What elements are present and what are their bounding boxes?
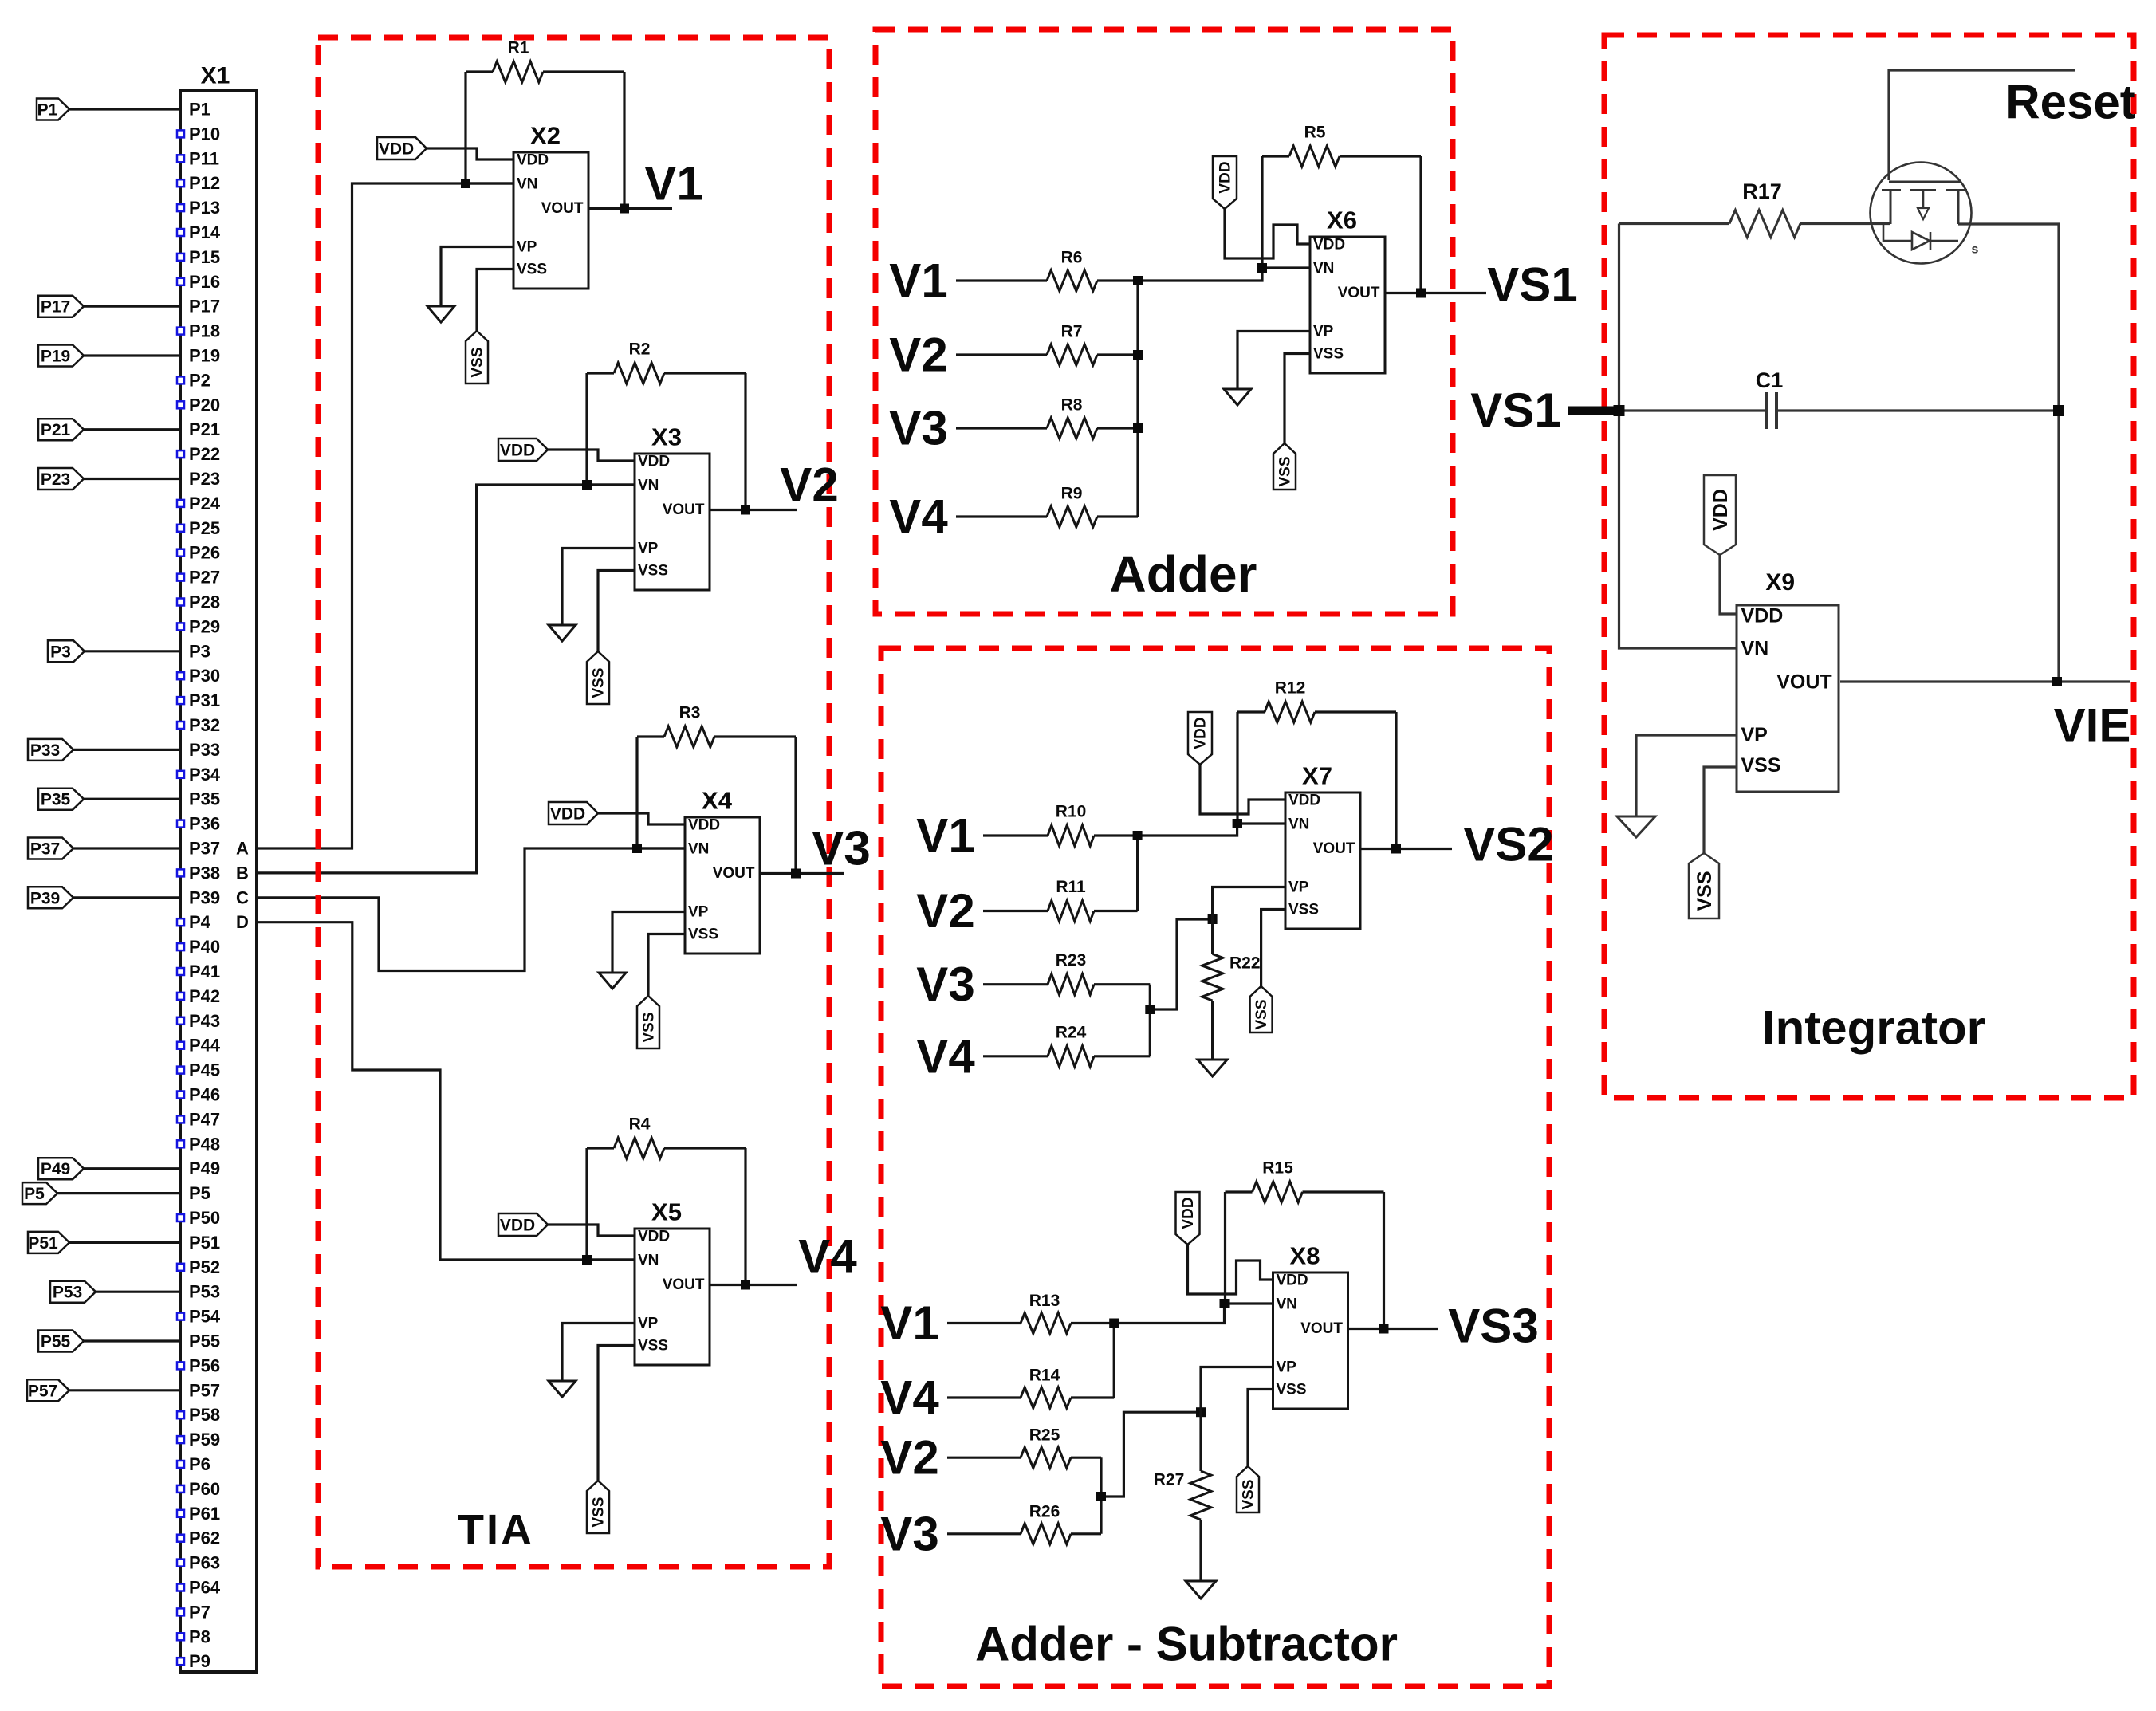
svg-text:P10: P10 (189, 124, 220, 144)
svg-text:R15: R15 (1262, 1159, 1293, 1178)
resistor R23 (983, 983, 1048, 985)
svg-text:P8: P8 (189, 1626, 210, 1646)
svg-text:R11: R11 (1056, 878, 1086, 896)
svg-text:VDD: VDD (688, 817, 720, 834)
wire flag P23 to X1 (84, 478, 180, 480)
svg-text:V1: V1 (889, 254, 947, 308)
svg-text:P44: P44 (189, 1036, 221, 1056)
wire flag P55 to X1 (84, 1339, 180, 1342)
svg-text:P40: P40 (189, 937, 220, 957)
wire VSS of X8 to VSS flag (1248, 1390, 1273, 1467)
wire flag P1 to X1 (69, 108, 180, 110)
wire flag P37 to X1 (73, 847, 180, 849)
wire R2 right to VOUT (744, 373, 746, 510)
svg-text:VSS: VSS (688, 926, 718, 943)
svg-text:V4: V4 (916, 1029, 975, 1083)
svg-text:V1: V1 (644, 157, 702, 210)
svg-text:R10: R10 (1056, 803, 1087, 821)
svg-text:V2: V2 (889, 328, 947, 382)
wire VP of X3 to ground (562, 549, 635, 626)
svg-text:VN: VN (517, 176, 537, 193)
svg-text:Adder - Subtractor: Adder - Subtractor (975, 1618, 1398, 1671)
svg-text:R9: R9 (1061, 485, 1083, 503)
svg-text:V3: V3 (889, 402, 947, 455)
svg-text:VDD: VDD (1218, 161, 1234, 193)
svg-text:VOUT: VOUT (1300, 1320, 1343, 1337)
svg-text:P61: P61 (189, 1504, 220, 1524)
wire VOUT of X4 (760, 872, 845, 875)
wire Q1 source to right rail (1958, 224, 2059, 682)
svg-text:P56: P56 (189, 1355, 220, 1375)
svg-text:P33: P33 (189, 740, 220, 760)
junction VIE (2052, 677, 2062, 686)
svg-text:P30: P30 (189, 666, 220, 686)
svg-text:VP: VP (1288, 879, 1309, 896)
wire VOUT of X9 (VIE net) (1840, 680, 2130, 682)
svg-text:X7: X7 (1302, 762, 1332, 790)
svg-text:V4: V4 (880, 1371, 939, 1425)
wire R3 left to VN (637, 737, 685, 848)
resistor R6 (956, 279, 1047, 281)
svg-text:P58: P58 (189, 1405, 220, 1425)
op-amp X9 (1737, 605, 1839, 792)
svg-text:P27: P27 (189, 568, 220, 588)
svg-text:V1: V1 (916, 809, 974, 863)
svg-text:VP: VP (1277, 1359, 1297, 1376)
svg-text:R26: R26 (1029, 1502, 1060, 1520)
op-amp X5 (635, 1229, 710, 1365)
svg-text:VSS: VSS (591, 1497, 608, 1527)
svg-text:R24: R24 (1056, 1023, 1087, 1041)
svg-text:X5: X5 (651, 1198, 682, 1226)
wire net D (P4 to X5 VN) (257, 922, 635, 1260)
wire VDD flag to X9 (1720, 555, 1737, 614)
svg-text:VP: VP (688, 904, 709, 921)
ground symbol for X5 (549, 1381, 576, 1397)
svg-text:VN: VN (1288, 816, 1309, 833)
junction at X8 VOUT (1379, 1324, 1389, 1334)
svg-text:R7: R7 (1061, 323, 1083, 341)
svg-text:VSS: VSS (1277, 1382, 1307, 1398)
svg-text:P53: P53 (53, 1284, 82, 1302)
junction C1 right (2053, 405, 2064, 416)
wire flag P57 to X1 (69, 1389, 180, 1391)
wire net A (P37 to X2 VN) (257, 183, 513, 848)
resistor R26 (947, 1532, 1021, 1535)
VSS flag for X6 (1273, 443, 1296, 490)
resistor R22 (1202, 954, 1223, 1001)
svg-text:P4: P4 (189, 912, 211, 932)
wire net C (P39 to X4 VN) (257, 848, 685, 971)
svg-text:P43: P43 (189, 1011, 220, 1031)
wire net B (P38 to X3 VN) (257, 485, 635, 873)
wire VP of X2 to ground (441, 247, 513, 307)
connector X1 (180, 91, 257, 1672)
svg-text:P20: P20 (189, 395, 220, 415)
ground symbol under R22 (1198, 1060, 1227, 1076)
wire VSS of X7 to VSS flag (1261, 910, 1285, 987)
svg-text:VSS: VSS (517, 262, 547, 278)
svg-text:C1: C1 (1756, 368, 1784, 392)
junction X7 V1 (1133, 831, 1143, 840)
svg-text:R27: R27 (1154, 1471, 1185, 1489)
svg-text:VDD: VDD (517, 152, 549, 169)
resistor R11 (983, 910, 1048, 912)
resistor R15 (feedback) (1226, 1190, 1253, 1193)
wire R15 right to VOUT (1383, 1192, 1385, 1329)
wire flag P21 to X1 (84, 428, 180, 431)
wire R15 left to VN (1224, 1192, 1226, 1304)
capacitor C1 (1619, 409, 1767, 411)
svg-text:VDD: VDD (1288, 793, 1320, 809)
resistor R12 (feedback) (1237, 710, 1265, 713)
svg-text:P19: P19 (189, 346, 220, 366)
VSS flag for X4 (637, 996, 659, 1048)
svg-text:P46: P46 (189, 1085, 220, 1105)
op-amp X6 (1310, 237, 1385, 373)
junction at X3 VOUT (741, 505, 750, 515)
svg-text:P23: P23 (41, 470, 70, 489)
svg-text:P24: P24 (189, 494, 221, 513)
transistor Q1 (reset MOSFET) (1871, 163, 1972, 264)
wire X7 V1+V2 join (1136, 836, 1139, 911)
svg-text:V2: V2 (916, 884, 974, 938)
junction at X7 VOUT (1391, 844, 1401, 854)
junction X8 VP net (1196, 1407, 1206, 1417)
svg-text:R3: R3 (679, 704, 701, 722)
svg-text:P28: P28 (189, 592, 220, 612)
svg-text:R6: R6 (1061, 249, 1083, 267)
TIA dashed box (318, 37, 829, 1567)
resistor R27 (1190, 1471, 1211, 1520)
svg-text:V3: V3 (880, 1507, 938, 1560)
wire VDD flag to X7 (1200, 765, 1285, 814)
junction at X2 VN (461, 179, 470, 188)
wire VDD flag to X3 (548, 450, 635, 461)
body diode of Q1 (1883, 224, 1912, 241)
junction at X6 VN (1257, 263, 1267, 273)
svg-text:P33: P33 (30, 741, 60, 760)
svg-text:B: B (236, 863, 249, 883)
svg-text:P9: P9 (189, 1651, 210, 1671)
svg-text:V2: V2 (780, 458, 838, 512)
svg-text:VP: VP (638, 1316, 659, 1332)
svg-text:P19: P19 (41, 348, 70, 366)
svg-text:VN: VN (1277, 1296, 1297, 1313)
resistor R7 (956, 353, 1047, 356)
Integrator dashed box (1604, 35, 2134, 1098)
svg-text:P23: P23 (189, 469, 220, 489)
svg-text:P49: P49 (41, 1160, 70, 1178)
resistor R9 (956, 515, 1047, 517)
svg-text:VSS: VSS (1313, 346, 1344, 363)
resistor R5 (feedback) (1262, 155, 1289, 157)
junction adder V1 (1133, 276, 1143, 285)
svg-text:VIE: VIE (2054, 699, 2131, 753)
wire flag P17 to X1 (84, 305, 180, 308)
svg-text:VN: VN (638, 1253, 659, 1269)
VDD flag for X9 (1704, 475, 1736, 555)
svg-text:VP: VP (638, 541, 659, 557)
wire VDD flag to X4 (598, 813, 685, 824)
svg-text:P53: P53 (189, 1282, 220, 1302)
wire VSS of X6 to VSS flag (1285, 354, 1310, 444)
wire R22 to ground (1211, 1001, 1214, 1060)
svg-text:P63: P63 (189, 1553, 220, 1573)
wire VS1 stub (1568, 407, 1619, 415)
svg-text:VOUT: VOUT (663, 1276, 705, 1293)
junction at X3 VN (582, 480, 592, 490)
svg-text:s: s (1972, 243, 1979, 257)
wire flag P5 to X1 (57, 1192, 180, 1194)
svg-text:VOUT: VOUT (1338, 285, 1380, 301)
wire flag P49 to X1 (84, 1167, 180, 1170)
svg-text:VP: VP (1313, 324, 1334, 340)
wire flag P35 to X1 (84, 798, 180, 800)
junction X7 V3V4 (1145, 1005, 1155, 1014)
resistor R8 (956, 427, 1047, 429)
junction at X5 VN (582, 1255, 592, 1265)
svg-text:VSS: VSS (1694, 871, 1716, 911)
wire Reset net (1889, 70, 2075, 180)
svg-text:VDD: VDD (1277, 1272, 1308, 1289)
svg-text:VSS: VSS (638, 1338, 668, 1355)
svg-text:P38: P38 (189, 863, 220, 883)
svg-text:P1: P1 (189, 100, 210, 120)
junction at X2 VOUT (620, 204, 629, 214)
VDD flag for X7 (1188, 712, 1212, 765)
svg-text:P35: P35 (189, 789, 220, 809)
junction at X7 VN (1233, 819, 1242, 828)
svg-text:X6: X6 (1327, 206, 1357, 234)
svg-text:X2: X2 (530, 122, 561, 150)
svg-text:Integrator: Integrator (1762, 1001, 1985, 1055)
wire left rail to X9 VN (1619, 224, 1737, 649)
svg-text:V1: V1 (880, 1296, 938, 1350)
ground symbol for X3 (549, 625, 576, 641)
VSS flag for X3 (587, 651, 609, 704)
wire R5 left to VN (1261, 156, 1263, 268)
svg-text:R22: R22 (1229, 954, 1261, 973)
svg-text:P39: P39 (189, 887, 220, 907)
svg-text:P29: P29 (189, 616, 220, 636)
wire VP of X4 to ground (612, 912, 685, 973)
svg-text:X9: X9 (1765, 569, 1795, 596)
wire VP of X6 to ground (1237, 332, 1310, 390)
svg-text:Adder: Adder (1110, 545, 1257, 603)
resistor R10 (983, 834, 1048, 836)
svg-text:P7: P7 (189, 1602, 210, 1622)
svg-text:VDD: VDD (500, 1217, 535, 1235)
svg-text:X1: X1 (201, 63, 230, 89)
svg-text:VDD: VDD (1313, 237, 1345, 254)
ground symbol for X9 (1617, 816, 1655, 837)
VSS flag for X8 (1237, 1466, 1259, 1512)
svg-text:P55: P55 (189, 1331, 220, 1351)
svg-text:P22: P22 (189, 444, 220, 464)
svg-text:P55: P55 (41, 1333, 71, 1351)
wire VP of X9 to ground (1636, 735, 1737, 816)
svg-text:P25: P25 (189, 518, 220, 538)
svg-text:VDD: VDD (500, 442, 535, 460)
wire VOUT of X6 (1385, 292, 1487, 294)
svg-text:VDD: VDD (1741, 605, 1783, 627)
svg-text:VSS: VSS (641, 1012, 658, 1042)
svg-text:P39: P39 (30, 889, 60, 907)
svg-text:P52: P52 (189, 1257, 220, 1277)
wire R4 left to VN (587, 1148, 635, 1260)
VDD flag for X3 (498, 439, 548, 461)
wire R2 left to VN (587, 373, 635, 485)
svg-text:VDD: VDD (638, 454, 670, 470)
svg-text:R5: R5 (1304, 124, 1326, 142)
resistor R24 (983, 1055, 1048, 1057)
wire VOUT of X7 (1360, 848, 1453, 850)
svg-text:P14: P14 (189, 222, 221, 242)
op-amp X3 (635, 454, 710, 590)
svg-text:VS1: VS1 (1487, 258, 1577, 312)
junction X8 V1 (1109, 1319, 1119, 1328)
svg-text:P45: P45 (189, 1060, 220, 1080)
svg-text:R13: R13 (1029, 1292, 1060, 1310)
junction X7 VN (1233, 819, 1242, 828)
wire X8 V1+V4 join (1113, 1324, 1115, 1398)
svg-text:P6: P6 (189, 1454, 210, 1474)
svg-text:P11: P11 (189, 148, 219, 168)
resistor R13 (947, 1322, 1021, 1324)
junction X7 VP net (1208, 914, 1218, 924)
svg-text:VDD: VDD (638, 1229, 670, 1245)
svg-text:V4: V4 (889, 490, 948, 544)
wire R27 to ground (1199, 1520, 1202, 1581)
wire VDD flag to X2 (427, 148, 513, 159)
svg-text:P32: P32 (189, 715, 220, 735)
junction adder V3 (1133, 423, 1143, 433)
VSS flag for X2 (466, 331, 488, 383)
svg-text:P57: P57 (189, 1380, 220, 1400)
svg-text:P21: P21 (189, 419, 220, 439)
svg-text:X3: X3 (651, 423, 682, 451)
wire flag P19 to X1 (84, 354, 180, 356)
svg-text:VSS: VSS (1241, 1479, 1257, 1509)
ground symbol for X4 (599, 973, 626, 989)
svg-text:V2: V2 (880, 1431, 938, 1485)
svg-text:VSS: VSS (1741, 754, 1780, 777)
svg-text:P15: P15 (189, 247, 220, 267)
svg-text:P3: P3 (189, 641, 210, 661)
wire R12 right to VOUT (1395, 712, 1397, 849)
svg-text:VSS: VSS (470, 347, 486, 377)
svg-text:VOUT: VOUT (1313, 840, 1355, 857)
svg-text:P51: P51 (189, 1233, 220, 1253)
resistor R14 (947, 1396, 1021, 1398)
wire VOUT of X2 (588, 207, 673, 210)
resistor R1 (feedback) (466, 70, 493, 73)
wire flag P53 to X1 (96, 1291, 180, 1293)
svg-text:V3: V3 (916, 958, 974, 1011)
wire VDD flag to X8 (1188, 1245, 1273, 1294)
svg-text:X4: X4 (702, 787, 733, 815)
svg-text:VP: VP (1741, 724, 1767, 746)
resistor R17 (1619, 222, 1730, 225)
svg-text:V4: V4 (798, 1230, 857, 1284)
svg-text:VDD: VDD (1709, 489, 1732, 531)
op-amp X4 (685, 817, 760, 954)
svg-text:R25: R25 (1029, 1426, 1060, 1445)
wire X8 VP to R27 (1201, 1367, 1273, 1472)
svg-text:VS2: VS2 (1463, 818, 1553, 871)
svg-text:P37: P37 (30, 840, 60, 859)
svg-text:P50: P50 (189, 1208, 220, 1228)
svg-text:P3: P3 (50, 643, 71, 661)
junction at X6 VOUT (1416, 289, 1426, 298)
wire flag P33 to X1 (73, 749, 180, 751)
wire VOUT of X5 (710, 1284, 797, 1286)
svg-text:VDD: VDD (379, 140, 414, 159)
svg-text:V3: V3 (812, 822, 870, 875)
svg-text:P57: P57 (28, 1382, 57, 1400)
wire VSS of X2 to VSS flag (477, 269, 513, 332)
svg-text:P47: P47 (189, 1109, 220, 1129)
wire R1 right to VOUT (623, 72, 625, 209)
svg-text:VOUT: VOUT (1776, 671, 1831, 693)
junction at X4 VOUT (791, 869, 801, 879)
svg-text:VN: VN (1313, 261, 1334, 277)
wire X8 V2+V3 join (1100, 1457, 1102, 1534)
svg-text:P42: P42 (189, 986, 220, 1006)
resistor R2 (feedback) (587, 372, 614, 374)
wire R5 right to VOUT (1419, 156, 1422, 293)
svg-text:TIA: TIA (458, 1506, 534, 1554)
wire R12 left to VN (1236, 712, 1238, 824)
svg-text:C: C (236, 887, 249, 907)
svg-text:P49: P49 (189, 1158, 220, 1178)
VSS flag for X9 (1689, 853, 1719, 918)
junction VS1-C1 (1614, 405, 1625, 416)
wire X7 V3+V4 join (1149, 985, 1151, 1056)
wire X7 VP to R22 (1213, 887, 1285, 954)
junction X8 V2V3 (1096, 1492, 1106, 1501)
wire VDD flag to X5 (548, 1225, 635, 1236)
Adder dashed box (875, 29, 1453, 614)
svg-text:P64: P64 (189, 1578, 221, 1598)
ground symbol for X6 (1224, 389, 1251, 405)
svg-text:VDD: VDD (1193, 717, 1210, 749)
svg-text:P17: P17 (189, 297, 220, 317)
svg-text:P41: P41 (189, 962, 220, 981)
VDD flag for X5 (498, 1213, 548, 1236)
svg-text:P51: P51 (28, 1234, 58, 1253)
svg-text:Reset: Reset (2005, 76, 2135, 129)
svg-text:P5: P5 (189, 1183, 210, 1203)
wire R1 left to VN (466, 72, 513, 183)
svg-text:VOUT: VOUT (541, 200, 584, 217)
wire R4 right to VOUT (744, 1148, 746, 1285)
junction at X4 VN (632, 844, 642, 853)
ground symbol for X2 (427, 306, 454, 322)
svg-text:P48: P48 (189, 1134, 220, 1154)
svg-text:P16: P16 (189, 272, 220, 292)
resistor R4 (feedback) (587, 1147, 614, 1149)
VSS flag for X5 (587, 1481, 609, 1533)
svg-text:P18: P18 (189, 321, 220, 341)
svg-text:VN: VN (688, 841, 709, 858)
svg-text:P59: P59 (189, 1430, 220, 1449)
svg-text:P21: P21 (41, 421, 71, 439)
svg-text:P2: P2 (189, 370, 210, 390)
svg-text:P26: P26 (189, 543, 220, 563)
svg-text:P36: P36 (189, 814, 220, 834)
